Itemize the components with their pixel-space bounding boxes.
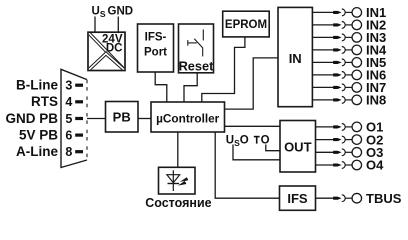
terminal circle	[352, 95, 362, 105]
socket arc	[342, 34, 345, 41]
wire	[312, 36, 335, 38]
socket arc	[342, 195, 345, 202]
LED arrows	[180, 177, 189, 182]
wire	[316, 139, 336, 141]
socket arc	[342, 84, 345, 91]
wire	[345, 74, 352, 76]
arrow (plug)	[333, 151, 341, 154]
terminal circle	[352, 148, 362, 158]
wire uController to OUT	[225, 125, 280, 127]
box IFS-Port	[138, 24, 174, 72]
wire Reset to uController	[184, 73, 197, 102]
wire	[345, 61, 352, 63]
socket arc	[342, 9, 345, 16]
wire TO to OUT	[266, 145, 280, 151]
box Reset	[179, 24, 215, 74]
wire	[316, 197, 336, 199]
wire PB to uController	[138, 118, 151, 120]
svg-text:OUT: OUT	[284, 139, 312, 154]
wire	[345, 151, 352, 153]
arrow (plug)	[333, 36, 341, 39]
socket arc	[342, 162, 345, 169]
arrow (plug)	[333, 197, 341, 200]
arrow (plug)	[333, 48, 341, 51]
svg-text:A-Line: A-Line	[16, 144, 58, 159]
terminal circle	[352, 83, 362, 93]
svg-text:6: 6	[65, 129, 72, 143]
terminal circle	[352, 135, 362, 145]
terminal circle	[352, 160, 362, 170]
socket arc	[342, 59, 345, 66]
wire uController to IFS	[215, 132, 279, 198]
terminal circle	[352, 8, 362, 18]
wire	[345, 36, 352, 38]
terminal circle	[352, 193, 362, 203]
wire	[345, 164, 352, 166]
box IFS	[280, 186, 316, 210]
socket arc	[342, 124, 345, 131]
reset switch symbol	[202, 30, 204, 41]
wire	[312, 99, 335, 101]
wire EPROM to uController	[202, 37, 245, 102]
terminal circle	[352, 58, 362, 68]
wire	[345, 139, 352, 141]
svg-text:GND: GND	[108, 6, 134, 18]
arrow (plug)	[333, 125, 341, 128]
svg-text:EPROM: EPROM	[225, 19, 267, 31]
terminal circle	[352, 122, 362, 131]
box LED status	[159, 167, 196, 194]
wire uController to LED	[177, 132, 179, 167]
box OUT	[280, 121, 316, 173]
power converter 24V DC box	[88, 32, 125, 70]
svg-text:DC: DC	[106, 43, 123, 55]
socket arc	[342, 136, 345, 143]
wire	[316, 126, 336, 128]
wire	[312, 74, 335, 76]
wire	[345, 11, 352, 13]
svg-text:IFS: IFS	[287, 191, 308, 206]
terminal circle	[352, 33, 362, 43]
wire IFS-Port to uController	[155, 72, 167, 102]
svg-text:B-Line: B-Line	[16, 78, 58, 93]
wire	[345, 86, 352, 88]
label inverted-T O	[254, 134, 270, 146]
wire	[345, 99, 352, 101]
box uController	[151, 102, 225, 132]
arrow (plug)	[333, 11, 341, 14]
socket arc	[342, 97, 345, 104]
svg-text:Port: Port	[144, 46, 167, 58]
wire	[345, 197, 352, 199]
arrow (plug)	[333, 86, 341, 89]
socket arc	[342, 149, 345, 156]
svg-text:IN: IN	[289, 51, 302, 66]
wire	[312, 11, 335, 13]
wire uController to IN	[225, 58, 279, 109]
arrow (plug)	[333, 73, 341, 76]
wire	[316, 164, 336, 166]
svg-text:Состояние: Состояние	[145, 196, 211, 210]
svg-text:IN8: IN8	[366, 93, 386, 108]
svg-text:4: 4	[65, 95, 72, 109]
arrow (plug)	[333, 98, 341, 101]
wire connector pin5 to PB	[87, 118, 106, 120]
svg-text:Reset: Reset	[179, 59, 215, 74]
terminal circle	[352, 20, 362, 30]
svg-text:5: 5	[65, 112, 72, 126]
box EPROM	[223, 11, 270, 37]
arrow (plug)	[333, 138, 341, 141]
wire	[345, 126, 352, 128]
wire USO to OUT	[233, 145, 280, 160]
connector D-SUB (pins 3,4,5,6,8)	[61, 69, 87, 167]
wire	[312, 61, 335, 63]
svg-text:5V PB: 5V PB	[19, 128, 58, 143]
arrow (plug)	[333, 23, 341, 26]
wire	[345, 49, 352, 51]
socket arc	[342, 47, 345, 54]
terminal circle	[352, 45, 362, 55]
wire	[312, 49, 335, 51]
wire GND to 24V box	[117, 17, 119, 33]
svg-text:O4: O4	[366, 158, 384, 173]
wire	[316, 151, 336, 153]
svg-text:8: 8	[65, 145, 72, 159]
socket arc	[342, 72, 345, 79]
svg-text:PB: PB	[113, 110, 131, 125]
svg-text:GND PB: GND PB	[5, 111, 58, 126]
arrow (plug)	[333, 61, 341, 64]
terminal circle	[352, 70, 362, 80]
box PB	[106, 102, 139, 133]
wire US to 24V box	[94, 17, 96, 33]
svg-text:µController: µController	[156, 111, 220, 125]
svg-text:RTS: RTS	[31, 94, 58, 109]
svg-text:O: O	[261, 134, 270, 146]
wire	[345, 24, 352, 26]
LED symbol	[172, 170, 174, 191]
wire	[312, 86, 335, 88]
arrow (plug)	[333, 163, 341, 166]
svg-text:TBUS: TBUS	[366, 191, 402, 206]
svg-text:3: 3	[65, 79, 72, 93]
socket arc	[342, 22, 345, 29]
box IN	[278, 7, 312, 106]
svg-text:IFS-: IFS-	[145, 31, 167, 43]
wire	[312, 24, 335, 26]
